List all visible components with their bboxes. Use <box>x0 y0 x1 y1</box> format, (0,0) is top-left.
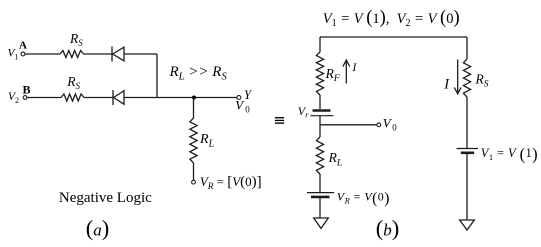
diode D2 <box>113 90 124 105</box>
current arrow I down <box>443 60 461 94</box>
svg-text:VR = [V(0)]: VR = [V(0)] <box>200 174 262 191</box>
svg-text:RS: RS <box>69 31 83 48</box>
svg-text:RL: RL <box>328 150 343 168</box>
diode D1 <box>112 47 124 62</box>
svg-text:RF: RF <box>325 66 340 84</box>
junction dot <box>192 96 196 100</box>
svg-text:V1 = V (1), V2 = V (0): V1 = V (1), V2 = V (0) <box>323 8 460 29</box>
svg-text:B: B <box>23 82 31 96</box>
resistor RF <box>316 52 339 95</box>
svg-text:Negative Logic: Negative Logic <box>59 190 152 206</box>
svg-text:V1: V1 <box>8 48 19 62</box>
node A terminal <box>19 40 27 56</box>
resistor RL2 <box>316 137 342 174</box>
wire B to RS2 <box>27 97 61 99</box>
svg-text:Y: Y <box>244 88 253 102</box>
node B terminal <box>23 82 31 99</box>
svg-text:V2: V2 <box>8 91 19 105</box>
wire top to RF <box>319 37 321 52</box>
resistor RS3 <box>463 59 488 97</box>
battery Vr <box>298 104 334 120</box>
terminal V0 <box>377 116 397 133</box>
wire top to RS3 <box>466 37 468 59</box>
wire RS3 to battery V1 <box>466 97 468 148</box>
svg-text:I: I <box>443 77 450 93</box>
equivalence symbol <box>275 117 284 124</box>
resistor RS2 <box>61 74 84 101</box>
top wire <box>320 36 467 38</box>
resistor RS1 <box>60 31 84 58</box>
svg-text:I: I <box>352 62 358 74</box>
wire battery V1 to ground <box>466 153 468 220</box>
svg-text:Vr: Vr <box>298 104 309 120</box>
wire RS1 to D1 <box>84 53 113 55</box>
wire RF to battery Vr <box>319 95 321 109</box>
wire A to RS1 <box>25 53 60 55</box>
ground left <box>314 218 329 228</box>
svg-text:(a): (a) <box>86 216 110 241</box>
resistor RL <box>190 118 215 163</box>
wire battery to RL2 <box>319 116 321 137</box>
battery VR <box>307 193 334 197</box>
svg-text:RL: RL <box>199 132 215 149</box>
svg-text:VR = V(0): VR = V(0) <box>337 190 390 207</box>
wire RL2 to battery VR <box>319 174 321 192</box>
battery V1 <box>457 149 479 153</box>
svg-text:V1 = V (1): V1 = V (1) <box>481 145 538 164</box>
svg-text:A: A <box>19 40 27 52</box>
svg-text:RS: RS <box>475 72 489 90</box>
terminal VR <box>192 180 196 184</box>
wire RS2 to D2 <box>84 97 113 99</box>
output terminal Y <box>237 88 253 102</box>
wire node to V0 terminal <box>320 124 377 126</box>
svg-text:RL >> RS: RL >> RS <box>169 64 228 82</box>
wire junction to RL <box>193 98 195 119</box>
wire RL to VR terminal <box>193 163 195 180</box>
wire battery VR to ground <box>319 197 321 218</box>
svg-text:(b): (b) <box>376 216 400 241</box>
ground right <box>460 220 475 230</box>
current arrow I up <box>343 60 358 84</box>
svg-text:V0: V0 <box>383 116 397 133</box>
wire D1 to corner <box>124 53 157 55</box>
wire corner down to output line <box>156 54 158 98</box>
wire D2 to output terminal Y <box>124 97 237 99</box>
svg-text:RS: RS <box>66 74 80 91</box>
